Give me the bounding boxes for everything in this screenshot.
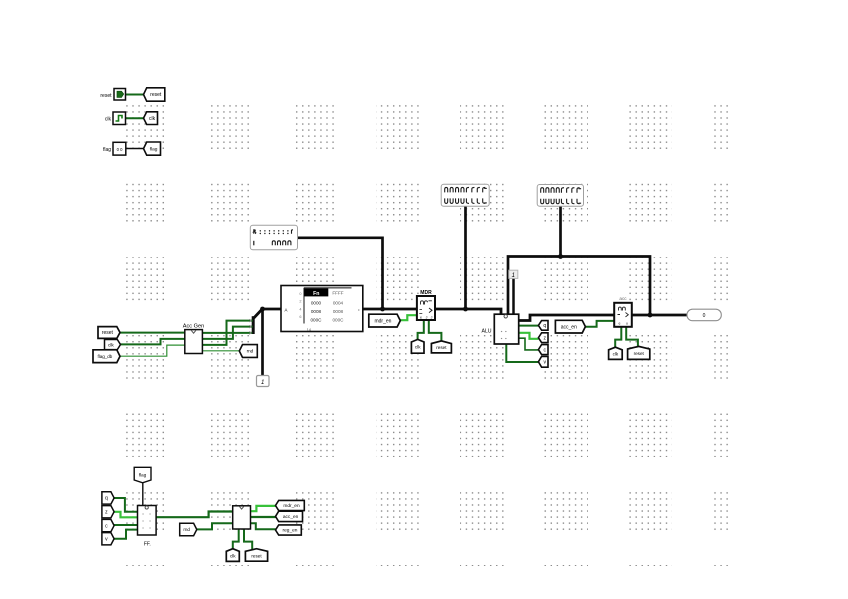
svg-text:clk: clk: [613, 352, 619, 357]
svg-text:rnd: rnd: [183, 527, 190, 532]
svg-text:clk: clk: [230, 553, 236, 558]
svg-text:reset: reset: [100, 93, 112, 99]
svg-text:0008: 0008: [311, 309, 322, 314]
svg-text:MDR: MDR: [420, 290, 432, 296]
svg-text:6: 6: [299, 315, 301, 319]
svg-text:Fn: Fn: [313, 291, 319, 297]
svg-text:2: 2: [299, 300, 301, 304]
svg-text:000C: 000C: [333, 317, 345, 322]
svg-text:0: 0: [703, 313, 706, 319]
svg-text:FF.: FF.: [144, 542, 151, 548]
svg-text:clk: clk: [108, 342, 114, 348]
svg-text:0000: 0000: [311, 300, 322, 305]
svg-text:reset: reset: [634, 351, 645, 356]
svg-text:A: A: [285, 307, 288, 312]
svg-text:0: 0: [299, 292, 301, 296]
svg-text:acc_en: acc_en: [283, 515, 299, 520]
svg-text:mdr_en: mdr_en: [283, 503, 300, 509]
svg-text:0004: 0004: [333, 300, 344, 305]
svg-text:000C: 000C: [311, 317, 323, 322]
svg-text:e: e: [619, 322, 621, 326]
svg-text:4: 4: [299, 307, 301, 311]
svg-text:0008: 0008: [333, 309, 344, 314]
svg-text:mdr_en: mdr_en: [374, 318, 391, 324]
svg-text:J: J: [431, 316, 433, 320]
svg-text:clk: clk: [149, 116, 156, 122]
svg-text:reset: reset: [436, 345, 447, 350]
svg-text:flag: flag: [150, 146, 158, 152]
svg-text:reset: reset: [150, 92, 162, 98]
svg-text:ALU: ALU: [481, 329, 491, 335]
svg-text:J: J: [426, 316, 428, 320]
svg-text:u: u: [626, 322, 628, 326]
svg-text:flag_db: flag_db: [98, 354, 113, 359]
svg-text:flag: flag: [139, 472, 147, 477]
svg-text:q: q: [105, 496, 108, 502]
svg-text:1: 1: [512, 273, 515, 279]
svg-text:FFFF: FFFF: [332, 291, 343, 296]
svg-text:acc: acc: [619, 296, 627, 301]
svg-text:e: e: [420, 316, 422, 320]
svg-text:flag: flag: [103, 147, 111, 153]
svg-text:clk: clk: [105, 117, 112, 123]
svg-text:14: 14: [307, 327, 312, 332]
svg-text:acc_en: acc_en: [561, 324, 577, 330]
svg-text:reset: reset: [102, 330, 114, 336]
svg-text:q: q: [543, 323, 546, 329]
svg-text:reset: reset: [251, 553, 262, 558]
svg-text:1: 1: [261, 380, 264, 386]
svg-text:reg_en: reg_en: [283, 528, 298, 534]
svg-text:Acc Gen: Acc Gen: [183, 323, 204, 329]
svg-text:rnd: rnd: [247, 349, 254, 354]
svg-text:0 0: 0 0: [117, 147, 123, 152]
svg-text:clk: clk: [415, 345, 421, 350]
